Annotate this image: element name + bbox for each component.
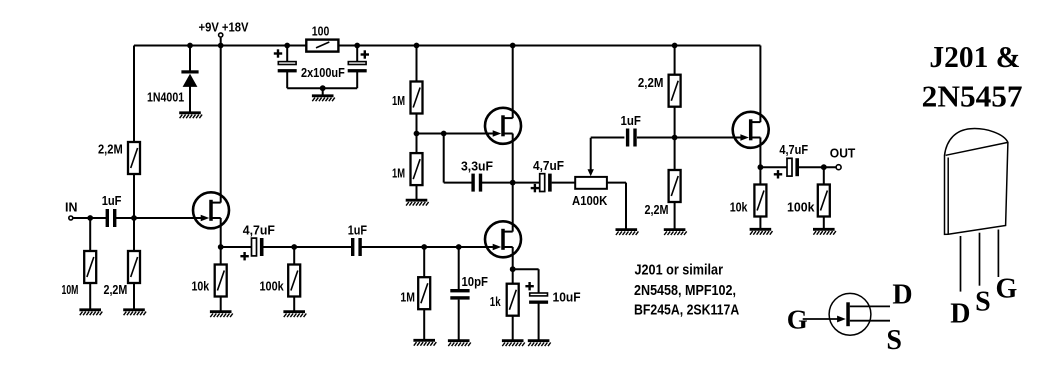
svg-text:1uF: 1uF bbox=[102, 194, 122, 208]
svg-text:J201 &: J201 & bbox=[929, 39, 1020, 74]
svg-text:D: D bbox=[892, 280, 912, 311]
svg-text:2,2M: 2,2M bbox=[98, 143, 123, 157]
svg-text:+9V +18V: +9V +18V bbox=[199, 20, 250, 34]
svg-text:2N5458, MPF102,: 2N5458, MPF102, bbox=[634, 282, 736, 299]
svg-text:S: S bbox=[886, 325, 902, 356]
svg-text:2,2M: 2,2M bbox=[638, 76, 664, 90]
svg-text:10pF: 10pF bbox=[462, 275, 489, 289]
svg-text:OUT: OUT bbox=[830, 146, 856, 160]
svg-text:G: G bbox=[787, 305, 808, 335]
svg-text:4,7uF: 4,7uF bbox=[779, 143, 808, 157]
svg-text:4,7uF: 4,7uF bbox=[243, 223, 275, 237]
svg-text:2x100uF: 2x100uF bbox=[301, 66, 345, 80]
svg-text:BF245A, 2SK117A: BF245A, 2SK117A bbox=[634, 302, 739, 319]
svg-text:S: S bbox=[975, 287, 991, 318]
svg-text:2,2M: 2,2M bbox=[645, 203, 669, 217]
svg-text:1M: 1M bbox=[400, 291, 415, 305]
svg-text:10k: 10k bbox=[192, 280, 211, 294]
svg-text:2,2M: 2,2M bbox=[104, 283, 128, 297]
svg-text:1M: 1M bbox=[392, 167, 405, 181]
svg-text:1k: 1k bbox=[490, 295, 502, 309]
svg-text:10uF: 10uF bbox=[553, 290, 581, 304]
svg-text:1uF: 1uF bbox=[348, 223, 368, 237]
svg-text:100k: 100k bbox=[787, 200, 815, 214]
svg-text:10k: 10k bbox=[730, 200, 749, 214]
svg-text:J201 or similar: J201 or similar bbox=[635, 262, 724, 279]
svg-text:100k: 100k bbox=[260, 280, 285, 294]
svg-text:1N4001: 1N4001 bbox=[147, 91, 184, 105]
svg-text:G: G bbox=[996, 274, 1018, 305]
svg-text:2N5457: 2N5457 bbox=[922, 79, 1023, 114]
svg-text:IN: IN bbox=[65, 200, 77, 214]
svg-text:10M: 10M bbox=[62, 283, 79, 297]
svg-text:3,3uF: 3,3uF bbox=[461, 160, 493, 174]
svg-text:A100K: A100K bbox=[572, 194, 607, 208]
svg-text:100: 100 bbox=[312, 25, 330, 39]
svg-text:1M: 1M bbox=[392, 94, 405, 108]
svg-text:1uF: 1uF bbox=[621, 114, 642, 128]
svg-text:D: D bbox=[950, 298, 970, 329]
svg-text:4,7uF: 4,7uF bbox=[533, 159, 564, 173]
